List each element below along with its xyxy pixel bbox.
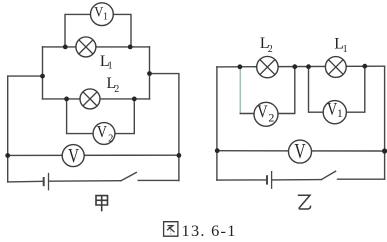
battery B2 (yi): long positive plate <box>271 172 273 189</box>
svg-text:1: 1 <box>343 44 348 55</box>
wire: jia V2 loop <box>67 99 135 134</box>
label L1 (yi) <box>334 35 347 55</box>
voltmeter V1 (yi) <box>323 101 346 124</box>
switch S jia: blade <box>121 173 136 181</box>
voltmeter V1 (jia) <box>91 3 114 26</box>
node: yi V-row right junction <box>382 148 387 153</box>
wire: yi top row y66.9 to 66.1 <box>217 65 385 68</box>
voltmeter V (yi) <box>289 140 312 163</box>
svg-text:2: 2 <box>114 84 119 95</box>
wire: yi V2 loop left riser (teal) <box>239 68 241 114</box>
wire: jia left tap to outer left rail <box>8 76 43 182</box>
svg-text:V: V <box>68 144 79 167</box>
svg-text:V: V <box>294 140 306 163</box>
battery B1 (jia): long positive plate <box>48 174 50 190</box>
battery B1 (jia): short negative plate <box>43 178 45 185</box>
wire: jia right middle vertical x149.5 <box>149 47 151 99</box>
wire: yi outer left rail x216.9 <box>216 67 218 180</box>
node: yi top-row V2 right tap <box>292 64 297 69</box>
svg-text:V: V <box>257 101 268 122</box>
node: yi top-row V2 left tap <box>238 64 243 69</box>
switch S yi: blade <box>321 171 335 179</box>
svg-text:2: 2 <box>108 133 113 144</box>
node: jia L2-row right junction <box>132 97 137 102</box>
voltmeter V (jia) <box>62 144 84 167</box>
node: yi top-row V1 right tap <box>362 64 367 69</box>
wire: yi V2 loop bottom and right riser <box>240 67 294 114</box>
svg-text:V: V <box>97 123 108 142</box>
wire: jia L1 row y46.9 <box>43 46 150 48</box>
wire: yi V1 loop <box>309 66 365 112</box>
battery B2 (yi): short negative plate <box>266 176 268 183</box>
wire: jia V1 loop (left riser x65, top y14.4, right riser x131) <box>65 14 131 47</box>
svg-text:1: 1 <box>108 61 113 72</box>
node: jia left-vertical tap junction <box>40 74 45 79</box>
voltmeter V2 (jia) <box>93 123 115 145</box>
wire: yi bottom left segment to battery <box>217 179 266 181</box>
label L2 (jia) <box>107 75 120 95</box>
lamp L2 (jia) <box>80 89 100 109</box>
wire: jia right tap to outer right rail <box>150 74 179 181</box>
wire: yi outer right rail x384.6 <box>384 66 386 179</box>
node: jia L1-row left junction <box>63 45 68 50</box>
svg-text:2: 2 <box>268 44 273 55</box>
label L1 (jia) <box>100 53 113 72</box>
node: jia right-vertical tap junction <box>147 71 152 76</box>
wire: yi battery to switch segment <box>272 179 321 181</box>
voltmeter V2 (yi) <box>254 101 278 126</box>
svg-text:13. 6-1: 13. 6-1 <box>182 221 237 240</box>
wire: jia voltmeter V row y155.2 <box>8 154 179 156</box>
lamp L1 (yi) <box>325 57 346 78</box>
label: Chinese character yi (乙) under right circuit <box>298 195 311 209</box>
svg-text:V: V <box>327 101 338 120</box>
lamp L2 (yi) <box>257 56 278 77</box>
node: jia V-row right junction <box>177 153 182 158</box>
svg-text:1: 1 <box>337 108 343 120</box>
svg-text:2: 2 <box>268 111 274 125</box>
wire: jia bottom left segment to battery <box>8 180 43 183</box>
node: yi top-row V1 left tap <box>306 64 311 69</box>
wire: jia L2 row y98.9 <box>43 98 150 100</box>
wire: jia battery to switch segment <box>49 180 121 183</box>
node: yi V-row left junction <box>215 148 220 153</box>
label L2 (yi) <box>260 35 273 55</box>
node: jia L2-row left junction <box>64 97 69 102</box>
wire: yi switch to right rail <box>338 178 385 180</box>
lamp L1 (jia) <box>76 37 96 57</box>
caption: Chinese character tu (图) of figure caption <box>164 222 178 237</box>
svg-text:V: V <box>94 4 103 20</box>
node: jia L1-row right junction <box>128 45 133 50</box>
node: jia V-row left junction <box>5 153 10 158</box>
wire: jia switch to right rail <box>138 179 179 181</box>
label: Chinese character jia (甲) under left circuit <box>96 196 108 212</box>
svg-text:1: 1 <box>103 12 108 23</box>
wire: yi voltmeter V row y150.7 <box>217 150 385 152</box>
wire: jia left middle vertical x42.5 <box>42 47 44 99</box>
